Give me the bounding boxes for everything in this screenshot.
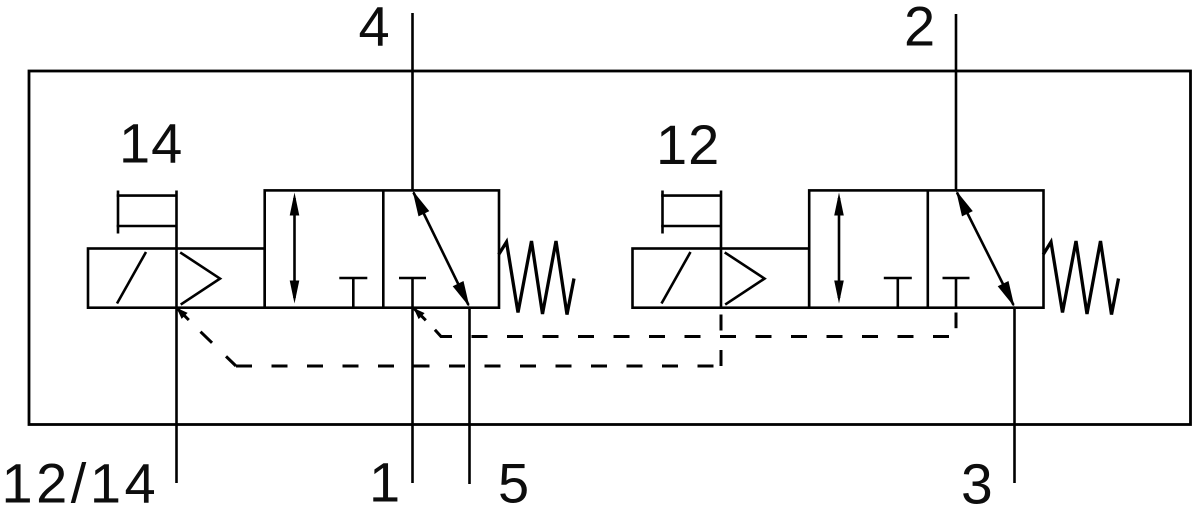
wire port 3 line: [1013, 308, 1016, 483]
valve V2 body cell divider: [926, 190, 929, 307]
pilot line 12/14 to V2, diagonal dashed segment: [201, 332, 237, 366]
svg-text:4: 4: [359, 0, 391, 58]
wire port 2 line: [955, 14, 958, 190]
valve V2 blocked port T (left cell): [884, 278, 912, 308]
wire port 5 line: [468, 308, 471, 484]
pilot line arrowhead at 12/14 junction: [173, 305, 187, 319]
valve V1 return spring: [499, 241, 574, 315]
valve V1 flow path diagonal 4-5: [407, 188, 475, 310]
pilot line 12/14 to V2, vertical dashed segment at V2 pilot: [720, 315, 723, 367]
wire port 4 line: [411, 13, 414, 190]
valve V2 flow path diagonal 2-3: [951, 188, 1020, 310]
valve V1 solenoid diagonal stroke: [117, 252, 146, 304]
svg-text:5: 5: [498, 452, 530, 511]
svg-text:12/14: 12/14: [2, 452, 160, 511]
wire port 1 line: [411, 308, 414, 483]
pilot line 1 to V2 supply, vertical dash at V2: [955, 313, 958, 329]
svg-text:2: 2: [904, 0, 936, 58]
valve V2 solenoid coil box: [633, 249, 810, 308]
svg-text:3: 3: [961, 453, 994, 511]
pilot line 1 to V2 supply, horizontal dashed segment: [472, 335, 957, 338]
valve V1 blocked port T (right cell): [399, 278, 426, 308]
pilot line arrow tail at port 1 junction: [414, 308, 426, 320]
pilot line 12/14 to V2, horizontal dashed segment: [236, 365, 721, 368]
pilot line arrowhead at port 1 junction: [410, 305, 424, 319]
valve V1 solenoid coil box: [88, 249, 265, 308]
valve V2 return spring: [1043, 241, 1118, 315]
valve V2 pilot triangle: [725, 252, 765, 304]
valve V1 blocked port T (left cell): [339, 278, 367, 308]
svg-text:14: 14: [119, 112, 183, 175]
pilot line 1 to V2 supply, bend dash: [435, 330, 452, 337]
valve V1 body cell divider: [382, 190, 385, 307]
valve V1 pilot triangle: [180, 252, 220, 304]
svg-text:1: 1: [369, 451, 401, 511]
pilot line arrow tail at 12/14 junction: [177, 308, 189, 320]
valve V2 blocked port T (right cell): [943, 278, 970, 308]
valve V2 solenoid diagonal stroke: [662, 252, 691, 304]
valve V1 double arrow (closed position flow): [290, 193, 300, 304]
svg-text:12: 12: [656, 113, 720, 176]
valve V1 coil armature rectangle: [117, 191, 177, 308]
valve V2 coil armature rectangle: [661, 191, 721, 308]
valve V2 body box: [809, 190, 1043, 307]
valve V1 body box: [265, 190, 499, 307]
manifold block frame: [29, 71, 1191, 425]
valve V2 double arrow (closed position flow): [834, 193, 844, 304]
wire port 12/14 line: [175, 308, 178, 483]
